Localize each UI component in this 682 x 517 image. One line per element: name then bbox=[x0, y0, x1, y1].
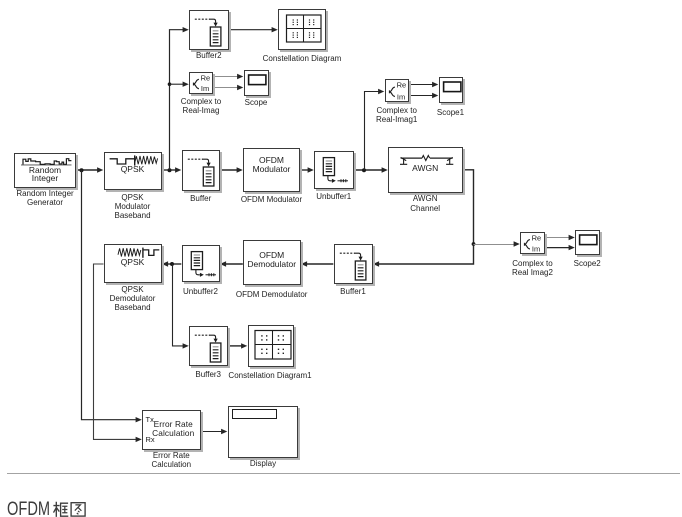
svg-text:Re: Re bbox=[201, 73, 211, 82]
svg-text:Re: Re bbox=[396, 80, 406, 89]
svg-text:Im: Im bbox=[532, 244, 540, 253]
svg-text:Im: Im bbox=[396, 92, 404, 101]
svg-text:Im: Im bbox=[201, 84, 209, 93]
svg-text:Re: Re bbox=[532, 233, 542, 242]
